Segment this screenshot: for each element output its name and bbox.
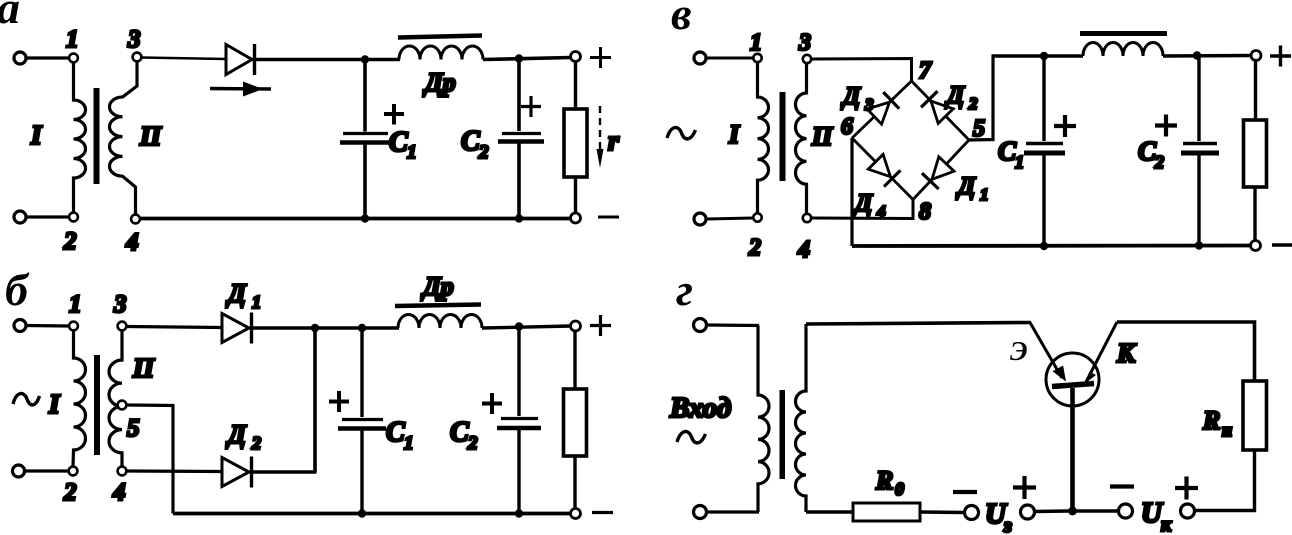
svg-text:1: 1 [404, 433, 414, 454]
svg-text:r: r [608, 126, 620, 157]
junction C2 top [515, 322, 523, 330]
plus sign output [590, 315, 611, 336]
svg-text:н: н [1222, 420, 1232, 440]
svg-text:C: C [450, 417, 469, 448]
current direction arrow [210, 87, 271, 91]
wire load to - terminal [573, 456, 576, 508]
bottom rail [852, 244, 1251, 248]
output - terminal [571, 509, 581, 519]
svg-text:5: 5 [127, 415, 140, 442]
svg-text:Д: Д [956, 173, 976, 200]
top rail to C1 [992, 54, 1084, 57]
svg-text:C: C [389, 127, 408, 158]
wire node4 to bridge bottom [812, 200, 914, 219]
node 3 terminal [118, 322, 127, 331]
wire input top [27, 324, 69, 328]
load current dashed line [599, 106, 601, 151]
load resistor [1244, 120, 1267, 187]
svg-text:1: 1 [252, 292, 261, 312]
svg-text:К: К [1116, 338, 1137, 368]
capacitor C1 lead top [360, 328, 363, 417]
svg-text:4: 4 [112, 479, 126, 506]
wire + terminal to load [574, 62, 577, 110]
transistor base bar [1052, 384, 1094, 387]
base lead vertical [1070, 388, 1075, 510]
diode D1 (edge 8-5) [932, 157, 954, 180]
wire node3 to diode D1 [127, 327, 223, 328]
svg-text:2: 2 [1154, 152, 1164, 172]
bridge edge 7-5 [912, 81, 970, 140]
load current arrow head [597, 149, 604, 168]
svg-text:к: к [1161, 514, 1172, 535]
wire load to - terminal [1253, 187, 1256, 241]
plus sign C2 [521, 96, 541, 117]
capacitor C1 lead bottom [363, 145, 367, 219]
transformer T1 primary winding I [73, 331, 86, 467]
choke Dr core bar [395, 305, 481, 307]
center tap wire vertical [171, 406, 174, 514]
input terminal bottom-left [14, 211, 26, 223]
collector lead diagonal [1086, 322, 1117, 382]
center tap wire horizontal [127, 403, 175, 407]
input terminal top-left [14, 320, 26, 332]
output - terminal [571, 213, 581, 223]
junction C1 top [361, 55, 369, 63]
output - terminal [1251, 241, 1261, 251]
transformer core [780, 92, 786, 181]
wire Rn down to Uk+ [1194, 450, 1255, 511]
output + terminal [571, 321, 581, 331]
wire choke to + terminal [1163, 54, 1251, 58]
svg-text:8: 8 [919, 199, 931, 225]
svg-text:1: 1 [69, 291, 82, 318]
bridge edge 7-6 [852, 81, 912, 138]
input terminal top-left [14, 52, 26, 64]
svg-text:Э: Э [1010, 336, 1028, 366]
plus sign output [590, 47, 611, 68]
capacitor C1 lead top [1042, 56, 1045, 141]
diode D3 (edge 6-7) [867, 102, 889, 124]
capacitor C1 lead bottom [1042, 155, 1045, 246]
svg-text:Др: Др [423, 68, 456, 97]
svg-text:3: 3 [113, 291, 127, 318]
svg-text:I: I [48, 389, 61, 419]
svg-text:Вход: Вход [669, 392, 731, 424]
node 1 terminal [753, 54, 761, 62]
emitter lead diagonal [1030, 323, 1062, 379]
svg-text:II: II [811, 122, 833, 151]
wire input top [707, 323, 759, 327]
svg-text:в: в [671, 0, 692, 39]
minus sign output [1272, 243, 1292, 247]
junction C1 bottom [358, 509, 366, 517]
diode D3 cathode bar [883, 92, 899, 109]
node 3 terminal [133, 53, 142, 62]
node 2 terminal [69, 213, 78, 222]
bottom rail [173, 512, 571, 516]
plus sign Uk [1175, 477, 1198, 500]
wire choke to C2 junction [482, 326, 571, 328]
svg-text:C: C [461, 126, 480, 157]
diode D cathode bar [253, 44, 256, 75]
svg-text:5: 5 [973, 116, 985, 142]
node 1 terminal [69, 54, 78, 63]
svg-text:2: 2 [63, 228, 77, 255]
wire secondary bottom to R0 [806, 510, 853, 513]
choke Dr core bar [398, 36, 482, 38]
transformer secondary winding [796, 324, 806, 512]
wire input bottom [707, 510, 759, 513]
diode D2 cathode bar [921, 91, 937, 107]
wire base junction to Uz+ [1035, 509, 1069, 513]
svg-text:1: 1 [750, 30, 762, 56]
wire junction to C1 [315, 326, 362, 329]
node 4 terminal [803, 214, 811, 222]
junction C1 bottom [1040, 242, 1048, 250]
svg-text:Д: Д [226, 420, 247, 449]
transformer T1 secondary winding II with center tap [109, 331, 122, 467]
plus sign output [1270, 46, 1291, 67]
svg-text:7: 7 [919, 58, 932, 84]
transformer T1 core [94, 88, 100, 184]
svg-text:Д: Д [853, 190, 873, 217]
node 1 terminal [69, 322, 78, 331]
resistor R0 [853, 503, 920, 521]
minus sign output [598, 216, 619, 219]
wire node3 to diode [142, 58, 227, 60]
input terminal bottom-left [694, 506, 707, 519]
input terminal top-left [694, 52, 706, 64]
transformer core [780, 390, 786, 479]
transformer primary winding I [758, 62, 769, 214]
choke core bar [1080, 31, 1167, 36]
svg-text:I: I [30, 120, 43, 150]
svg-text:6: 6 [841, 114, 853, 140]
svg-text:II: II [132, 353, 156, 383]
wire input top [27, 56, 69, 59]
capacitor C1 lead bottom [360, 431, 363, 514]
wire + terminal to load [573, 331, 576, 389]
plus sign C1 [384, 104, 404, 125]
wire node6 down to bottom rail [850, 138, 853, 246]
svg-text:R: R [1202, 406, 1220, 435]
capacitor C2 plates [1183, 142, 1217, 145]
plus sign Uz [1013, 476, 1036, 499]
emitter arrow [1053, 366, 1067, 382]
svg-text:I: I [728, 120, 740, 149]
svg-text:б: б [5, 264, 30, 315]
collector wedge [1085, 372, 1096, 384]
junction C2 top [1193, 51, 1201, 59]
svg-text:1: 1 [980, 185, 989, 204]
wire choke to junction C2 [483, 58, 571, 60]
transistor VT circle [1046, 353, 1099, 406]
wire D2 to junction vertical [253, 470, 317, 473]
Uk - terminal [1119, 504, 1133, 518]
capacitor C1 plates [342, 418, 383, 421]
transformer secondary winding II [796, 64, 807, 214]
svg-text:R: R [875, 466, 893, 495]
capacitor C2 lead top [517, 327, 520, 417]
wire input bottom [27, 215, 69, 218]
wire C1 to choke [362, 326, 399, 329]
svg-text:3: 3 [864, 95, 874, 114]
transformer T1 core [94, 355, 100, 455]
minus sign Uk [1110, 484, 1134, 488]
capacitor C2 plates [502, 132, 541, 135]
svg-text:2: 2 [251, 433, 261, 453]
diode D4 cathode bar [884, 170, 900, 186]
Uz + terminal [1021, 505, 1035, 519]
wire node4 to diode D2 [127, 469, 223, 473]
node 3 terminal [803, 55, 811, 63]
diode D (half-wave) [226, 45, 252, 75]
bottom rail [140, 217, 571, 221]
transformer T1 secondary winding II [110, 62, 138, 215]
input terminal bottom-left [13, 465, 25, 477]
wire load to - terminal [574, 177, 577, 213]
diode D2 cathode bar [250, 457, 253, 488]
output + terminal [1251, 51, 1261, 61]
svg-text:2: 2 [467, 433, 478, 454]
wire D1 to junction [253, 326, 317, 329]
junction C1 top [358, 324, 366, 332]
junction diode outputs [311, 324, 319, 332]
diode D1 cathode bar [250, 313, 253, 344]
input terminal top-left [694, 319, 707, 332]
capacitor C2 lead top [517, 59, 521, 132]
load resistor [564, 389, 587, 456]
svg-text:2: 2 [748, 235, 761, 261]
plus sign C2 [482, 393, 502, 414]
wire diode to node C1 [256, 58, 365, 62]
transformer T1 primary winding I [74, 63, 86, 213]
bridge edge 6-8 [852, 138, 913, 200]
svg-text:2: 2 [968, 94, 978, 113]
svg-text:4: 4 [797, 237, 810, 263]
svg-text:0: 0 [895, 479, 904, 499]
input terminal bottom-left [694, 213, 706, 225]
junction C1 bottom [361, 214, 369, 222]
minus sign Uz [953, 490, 977, 494]
svg-text:II: II [139, 121, 163, 151]
capacitor C1 plates [343, 132, 388, 135]
svg-text:а: а [0, 0, 20, 33]
Uk + terminal [1181, 504, 1195, 518]
plus sign C2 [1155, 115, 1177, 137]
svg-text:2: 2 [63, 479, 77, 506]
load resistor r [564, 109, 587, 177]
svg-text:3: 3 [127, 26, 141, 53]
capacitor C2 plates [501, 417, 538, 420]
wire node3 to bridge top [812, 59, 912, 82]
svg-text:Д: Д [945, 82, 965, 109]
capacitor C2 lead bottom [517, 144, 521, 219]
svg-text:2: 2 [478, 142, 489, 163]
wire input bottom [707, 218, 754, 219]
capacitor C1 lead top [363, 60, 367, 132]
node 5 center tap terminal [118, 401, 127, 410]
plus sign C1 [329, 391, 349, 412]
svg-text:1: 1 [407, 142, 417, 163]
ac source tilde [13, 394, 40, 405]
wire input bottom [25, 469, 68, 472]
bridge edge 8-5 [913, 140, 969, 200]
junction base / bottom wire [1068, 507, 1077, 516]
capacitor C2 lead top [1197, 56, 1200, 142]
wire node5 to filter [969, 56, 993, 140]
wire + terminal to load [1254, 61, 1257, 121]
junction C2 top [515, 54, 523, 62]
junction C2 bottom [515, 214, 523, 222]
svg-text:4: 4 [125, 229, 139, 256]
output + terminal [571, 52, 581, 62]
Uz - terminal [965, 506, 979, 520]
wire Uz- to R0 [921, 510, 965, 514]
svg-text:Д: Д [841, 83, 861, 110]
svg-text:1: 1 [66, 26, 79, 53]
diode D1 cathode bar [922, 173, 939, 189]
node 4 terminal [131, 215, 140, 224]
plus sign C1 [1054, 115, 1076, 137]
diode D4 (edge 6-8) [868, 154, 890, 176]
ac source tilde [667, 128, 696, 139]
diode D2 [222, 458, 249, 487]
capacitor C1 plates [1026, 142, 1063, 145]
capacitor C2 lead bottom [1197, 155, 1200, 246]
svg-text:Д: Д [226, 279, 247, 308]
node 4 terminal [118, 467, 127, 476]
junction C1 top [1040, 52, 1048, 60]
svg-text:C: C [386, 417, 405, 448]
wire junction to choke [365, 58, 400, 62]
capacitor C2 lead bottom [517, 430, 520, 514]
load resistor Rn [1243, 381, 1267, 450]
top rail to emitter [806, 323, 1031, 325]
junction C2 bottom [515, 509, 523, 517]
ac tilde [677, 432, 706, 443]
choke coil [1083, 43, 1163, 57]
diode D1 [222, 314, 249, 343]
top rail collector to Rn [1117, 322, 1255, 381]
junction C2 bottom [1195, 241, 1203, 249]
diode D2 (edge 7-5) [931, 101, 953, 123]
node 2 terminal [753, 213, 761, 221]
minus sign output [592, 511, 613, 514]
wire Uk- to base junction [1076, 509, 1118, 512]
node 2 terminal [69, 467, 78, 476]
choke Dr coil [398, 315, 482, 329]
svg-text:Др: Др [421, 272, 454, 301]
svg-text:1: 1 [1015, 152, 1024, 172]
wire input top [707, 57, 754, 60]
choke Dr coil [399, 46, 483, 60]
svg-text:з: з [1003, 515, 1012, 535]
wire junction vertical [313, 328, 317, 472]
transformer primary winding [758, 326, 769, 513]
svg-text:г: г [676, 264, 693, 315]
svg-text:3: 3 [798, 30, 811, 56]
